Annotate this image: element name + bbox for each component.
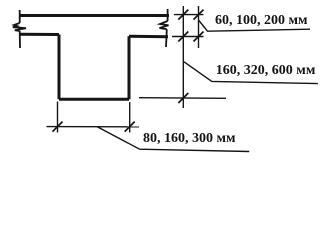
rib right wall [128,36,131,99]
tick at A top [178,10,188,20]
tick bottom-left [53,122,63,132]
slab bottom edge left segment [20,33,59,36]
bottom dimension line [47,126,140,128]
leader for 80,160,300 [97,127,249,152]
rib bottom edge [59,98,129,101]
left break zigzag [13,23,26,31]
extension line below rib right [129,102,131,133]
dimension line B (slab thickness) [198,6,200,48]
extension line slab bottom [172,36,204,38]
slab bottom edge right segment [129,35,168,39]
left break line [19,10,21,23]
right break line lower part [165,29,168,47]
left break line lower part [19,31,21,48]
tick at A bottom [178,93,188,103]
svg-text:60, 100, 200 мм: 60, 100, 200 мм [215,13,308,28]
tick at A mid [178,32,188,42]
svg-text:160, 320, 600 мм: 160, 320, 600 мм [216,63,316,78]
right break zigzag [160,21,169,29]
slab top edge [20,14,169,17]
svg-text:80, 160, 300 мм: 80, 160, 300 мм [143,131,236,146]
right break line [167,9,169,21]
leader for 160,320,600 [184,62,318,84]
tick at B top [194,10,204,20]
extension line below rib left [57,102,59,133]
tick at B mid [194,32,204,42]
tick bottom-right [125,122,135,132]
extension line top [174,14,204,16]
dimension line A (overall height) [182,6,184,108]
leader for 60,100,200 [199,20,311,31]
extension line rib bottom [139,97,226,100]
rib left wall [58,35,61,100]
